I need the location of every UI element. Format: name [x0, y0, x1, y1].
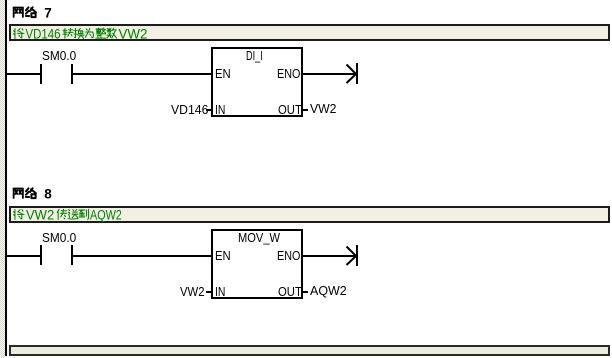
svg-text:VW2: VW2: [26, 208, 54, 223]
svg-text:7: 7: [44, 6, 52, 21]
svg-text:8: 8: [44, 187, 52, 202]
svg-text:VD146: VD146: [26, 27, 61, 42]
svg-text:VW2: VW2: [119, 27, 148, 42]
svg-text:AQW2: AQW2: [90, 208, 122, 223]
